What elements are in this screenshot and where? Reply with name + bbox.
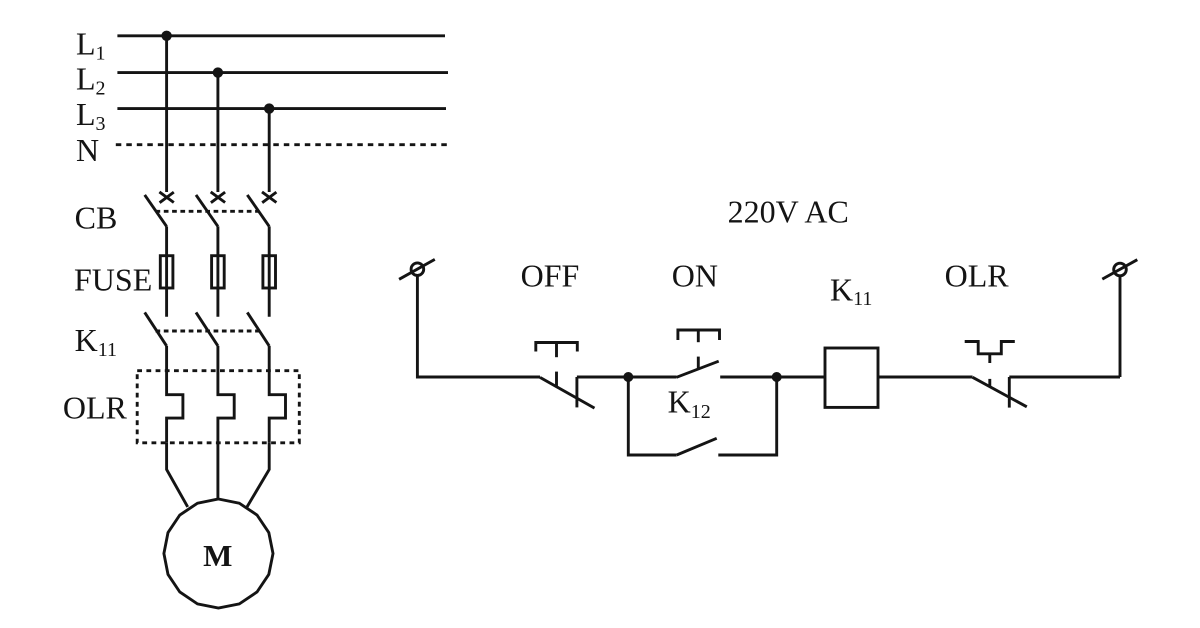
wire CB pole 3 to fuse 3 xyxy=(268,226,271,316)
svg-text:CB: CB xyxy=(75,200,118,236)
overload relay heater element pole 3 xyxy=(269,346,285,443)
wire OLR contact to right riser xyxy=(1009,376,1120,379)
terminal right (circle with slash) xyxy=(1102,260,1137,279)
svg-text:OLR: OLR xyxy=(63,390,128,426)
node L3 tap junction xyxy=(264,103,274,113)
svg-text:ON: ON xyxy=(672,257,718,293)
pushbutton OFF actuator stem upper xyxy=(555,343,558,358)
circuit breaker CB pole 3 blade xyxy=(247,195,269,227)
wire node B to coil K11 xyxy=(777,376,825,379)
pushbutton ON actuator stem upper xyxy=(697,330,700,342)
svg-text:OFF: OFF xyxy=(521,257,580,293)
svg-text:N: N xyxy=(76,132,99,168)
wire CB pole 1 to fuse 1 xyxy=(165,226,168,316)
overload relay heater element pole 2 xyxy=(218,346,234,443)
pushbutton ON actuator cap xyxy=(678,330,720,340)
terminal left (circle with slash) xyxy=(399,259,435,279)
circuit breaker CB pole 2 blade xyxy=(196,195,218,227)
wire node A to ON button xyxy=(628,376,676,379)
contactor K11 pole 2 blade xyxy=(196,312,218,346)
fuse F2 body xyxy=(212,256,225,288)
wire left riser to control rail xyxy=(417,275,540,377)
contact K12 NO blade xyxy=(677,438,717,455)
label K11 (main contacts) xyxy=(75,322,117,361)
wire K12 branch right return xyxy=(718,377,776,455)
label K11 (coil) xyxy=(830,272,872,311)
contact OLR NC blade xyxy=(973,377,1027,407)
svg-text:L1: L1 xyxy=(76,26,106,65)
pushbutton ON actuator stem lower xyxy=(697,357,700,370)
label L3 xyxy=(76,96,106,135)
pushbutton OFF actuator stem lower xyxy=(555,372,558,387)
overload relay thermal actuator symbol xyxy=(965,342,1015,354)
label M (motor) xyxy=(203,538,232,573)
label K12 (holding contact) xyxy=(668,383,711,423)
wire coil K11 to OLR contact xyxy=(878,376,973,379)
label OFF xyxy=(521,257,580,293)
contactor K11 mechanical linkage (dashed) xyxy=(156,330,260,333)
wire N bus line (dashed) xyxy=(116,143,451,146)
pushbutton OFF actuator cap xyxy=(536,343,578,352)
motor M body (16-sided polygon circle) xyxy=(164,499,273,608)
coil K11 box xyxy=(825,348,878,407)
node A junction dot xyxy=(623,372,633,382)
label ON xyxy=(672,257,718,293)
wire OFF to node A xyxy=(577,376,628,379)
wire ON to node B xyxy=(720,376,777,379)
svg-text:220V AC: 220V AC xyxy=(728,194,849,230)
circuit breaker CB pole 3 contact cross xyxy=(262,192,276,203)
circuit breaker CB pole 1 blade xyxy=(145,195,167,227)
label OLR (control contact) xyxy=(945,257,1010,293)
circuit breaker CB pole 1 contact cross xyxy=(159,192,173,203)
contactor K11 pole 1 blade xyxy=(145,312,167,346)
label L1 xyxy=(76,26,106,65)
wire L2 bus line xyxy=(117,71,448,74)
overload relay heater element pole 1 xyxy=(167,346,183,443)
overload relay OLR enclosure (dashed box) xyxy=(137,371,299,443)
label FUSE xyxy=(74,262,152,298)
svg-text:K11: K11 xyxy=(75,322,117,361)
svg-text:K11: K11 xyxy=(830,272,872,311)
label L2 xyxy=(76,60,106,99)
svg-text:M: M xyxy=(203,538,232,573)
circuit breaker CB pole 2 contact cross xyxy=(211,192,225,203)
svg-text:OLR: OLR xyxy=(945,257,1010,293)
svg-text:K12: K12 xyxy=(668,383,711,423)
node L1 tap junction xyxy=(161,31,171,41)
svg-text:L2: L2 xyxy=(76,60,106,99)
svg-text:FUSE: FUSE xyxy=(74,262,152,298)
fuse F1 body xyxy=(160,256,173,288)
svg-text:L3: L3 xyxy=(76,96,106,135)
wire motor lead phase 3 xyxy=(247,443,269,507)
contact OLR right terminal tick xyxy=(1008,377,1011,408)
wire K12 branch left drop xyxy=(628,377,676,455)
overload relay actuator stem lower xyxy=(988,379,991,386)
pushbutton OFF NC blade xyxy=(540,377,595,408)
wire phase drop from L3 to CB pole 3 xyxy=(268,109,271,192)
circuit breaker CB mechanical linkage (dashed) xyxy=(156,210,260,213)
wire L1 bus line xyxy=(117,34,445,37)
node B junction dot xyxy=(772,372,782,382)
wire phase drop from L1 to CB pole 1 xyxy=(165,36,168,192)
label 220V AC xyxy=(728,194,849,230)
pushbutton ON NO blade xyxy=(677,361,719,377)
label OLR (power side) xyxy=(63,390,128,426)
node L2 tap junction xyxy=(213,67,223,77)
label CB xyxy=(75,200,118,236)
wire right riser xyxy=(1119,276,1122,378)
wire CB pole 2 to fuse 2 xyxy=(216,226,219,316)
pushbutton OFF right terminal tick xyxy=(575,377,578,407)
wire phase drop from L2 to CB pole 2 xyxy=(216,73,219,192)
label N xyxy=(76,132,99,168)
wire motor lead phase 2 xyxy=(216,443,219,500)
contactor K11 pole 3 blade xyxy=(247,312,269,346)
wire motor lead phase 1 xyxy=(167,443,188,507)
fuse F3 body xyxy=(263,256,276,288)
wire L3 bus line xyxy=(117,107,446,110)
overload relay actuator stem upper xyxy=(988,354,991,363)
